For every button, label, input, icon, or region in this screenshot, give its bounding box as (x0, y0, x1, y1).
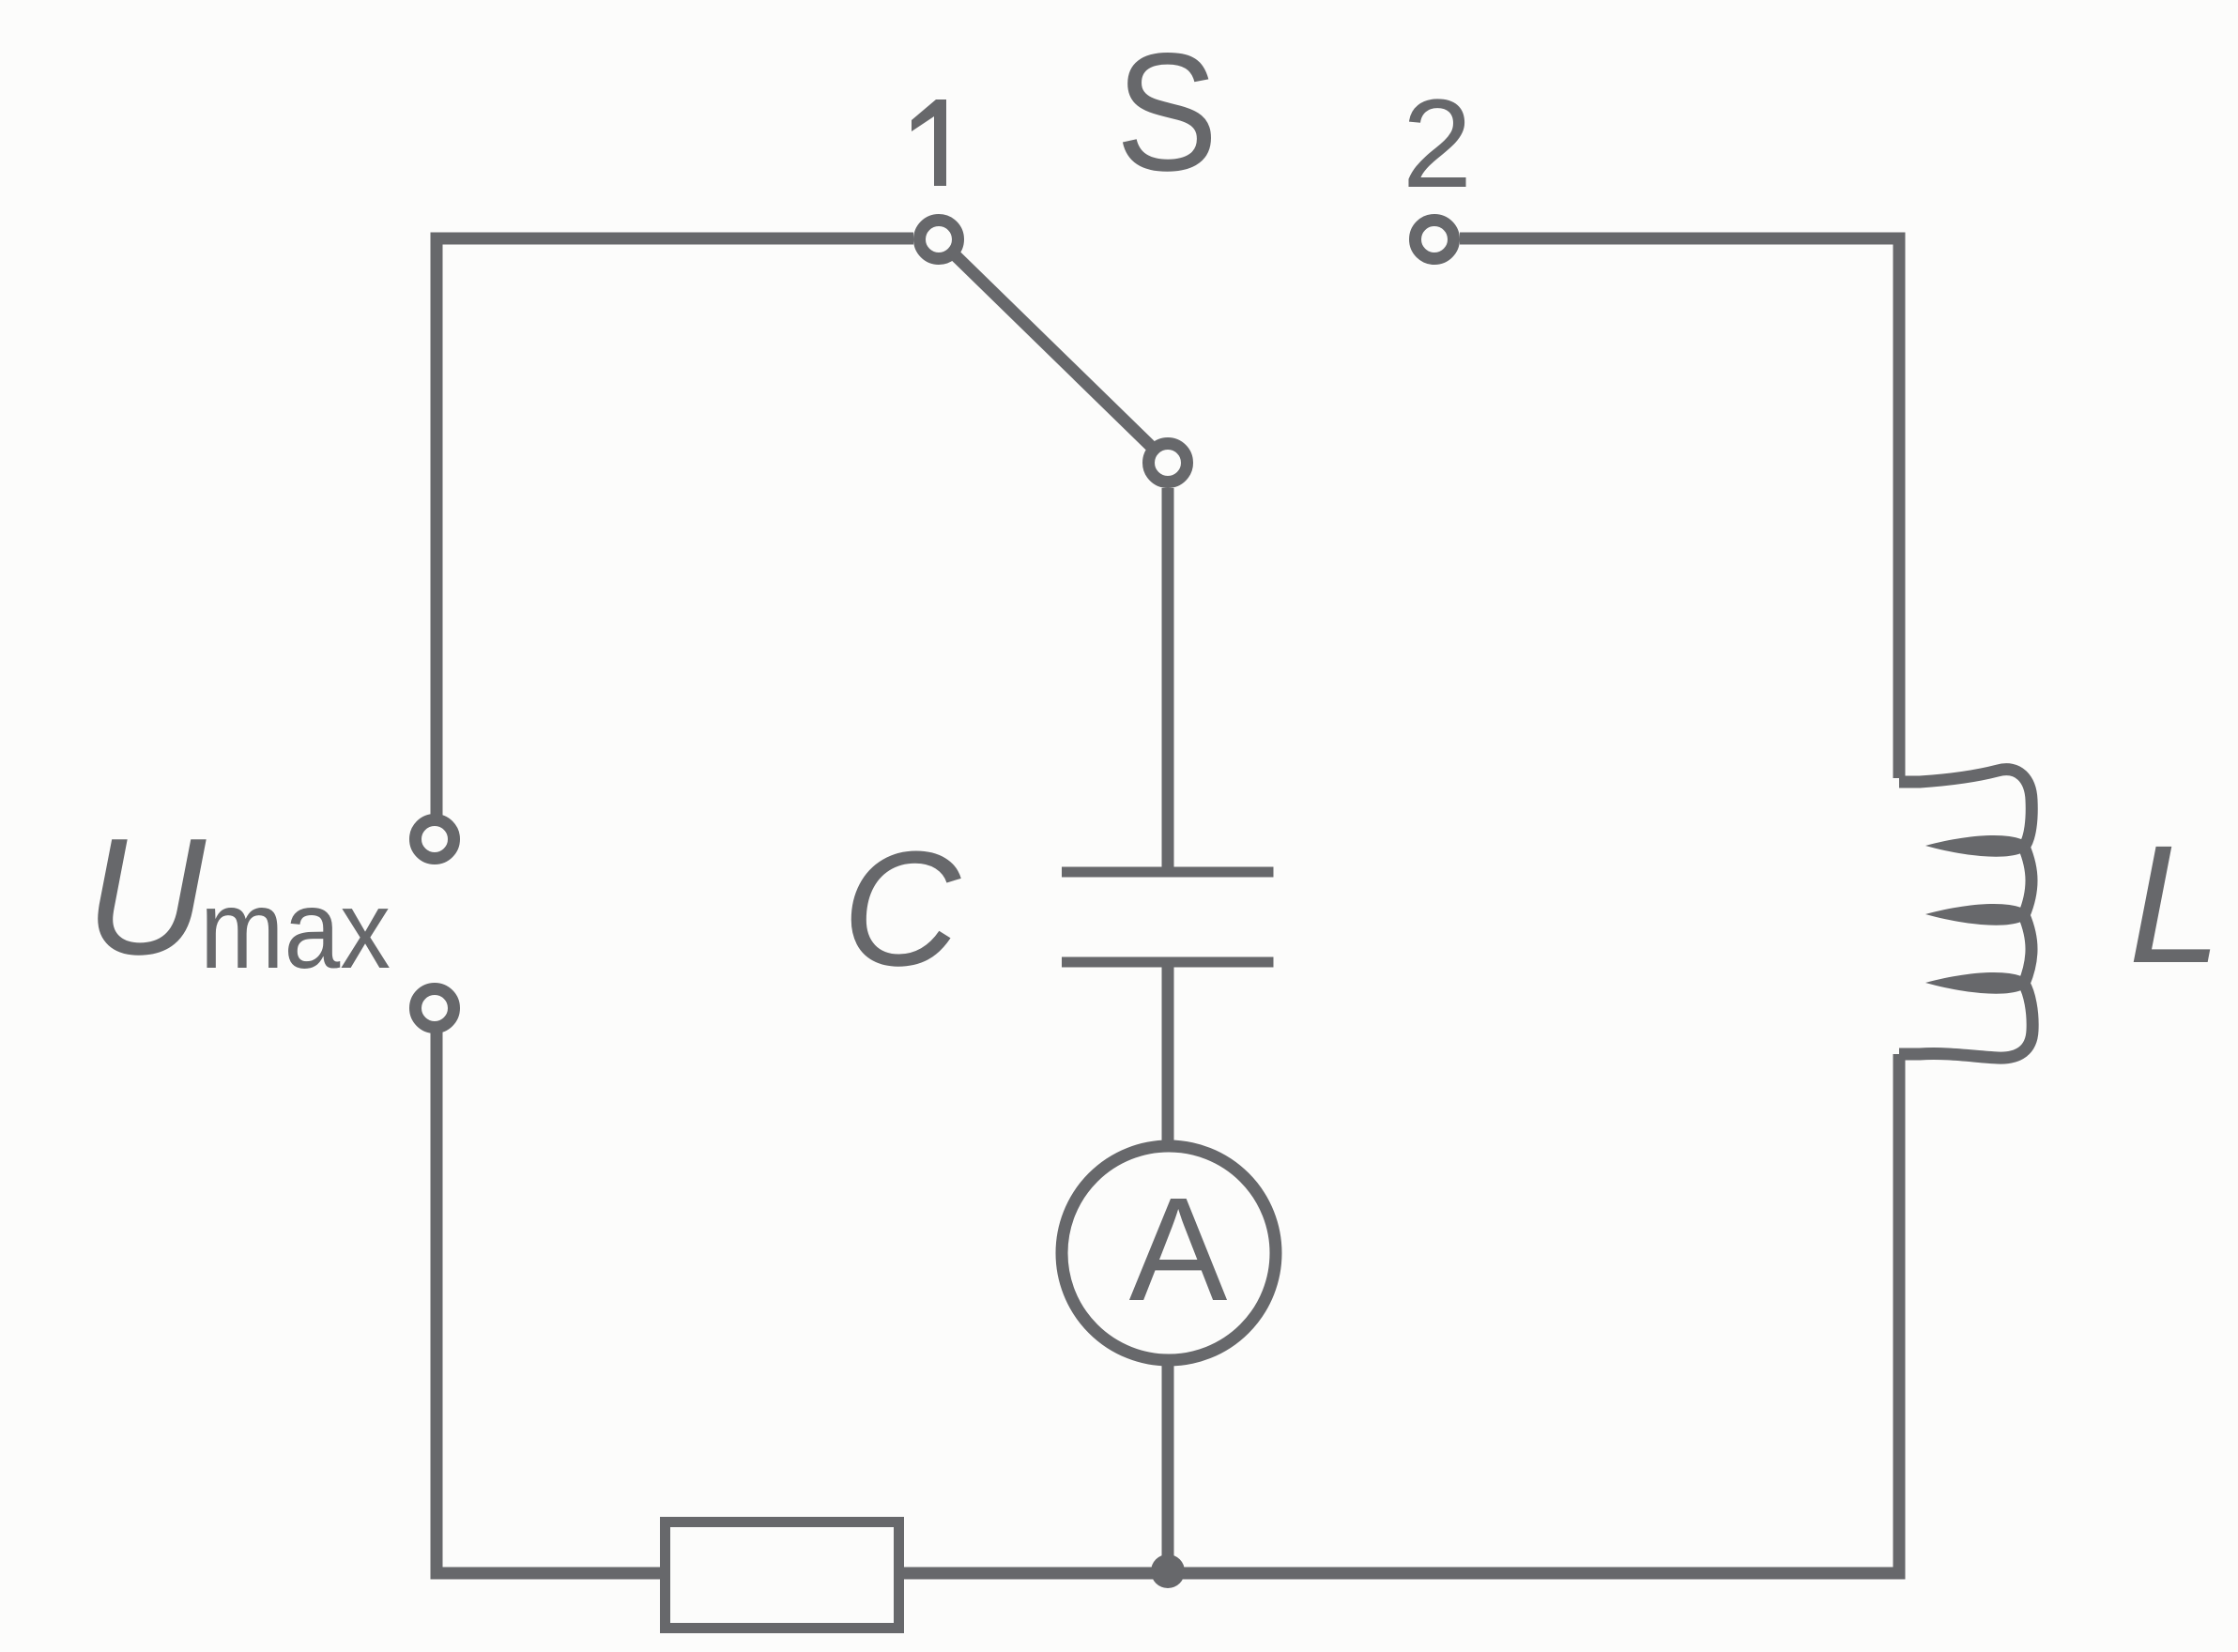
wire top-left run (437, 238, 913, 820)
source terminal lower (416, 989, 454, 1028)
node junction dot (1151, 1554, 1185, 1588)
capacitor C top plate (1062, 867, 1274, 878)
switch S arm (957, 257, 1149, 445)
switch pivot (1149, 444, 1188, 482)
source terminal upper (416, 820, 454, 859)
inductor loop leaf 1 (1925, 835, 2027, 857)
svg-text:C: C (842, 817, 961, 1000)
resistor body (666, 1522, 899, 1629)
inductor loop leaf 3 (1925, 972, 2027, 994)
wire ammeter to junction (1162, 1359, 1174, 1571)
svg-text:max: max (200, 867, 391, 992)
wire capacitor to ammeter (1162, 967, 1174, 1147)
switch contact 1 (920, 221, 958, 259)
wire left lower run (437, 1027, 660, 1573)
svg-text:A: A (1129, 1168, 1228, 1332)
svg-text:S: S (1116, 18, 1219, 206)
ammeter A body (1062, 1146, 1276, 1360)
svg-text:U: U (85, 803, 207, 989)
inductor loop leaf 2 (1925, 904, 2027, 925)
svg-text:L: L (2128, 810, 2222, 998)
wire bottom-right run (904, 1054, 1899, 1573)
inductor L coil (1899, 770, 2032, 1058)
capacitor C bottom plate (1062, 957, 1274, 968)
svg-text:2: 2 (1403, 74, 1473, 214)
switch contact 2 (1416, 221, 1454, 259)
wire top-right run (1460, 238, 1899, 778)
label 1 (912, 99, 946, 186)
wire pivot to capacitor (1162, 488, 1174, 870)
